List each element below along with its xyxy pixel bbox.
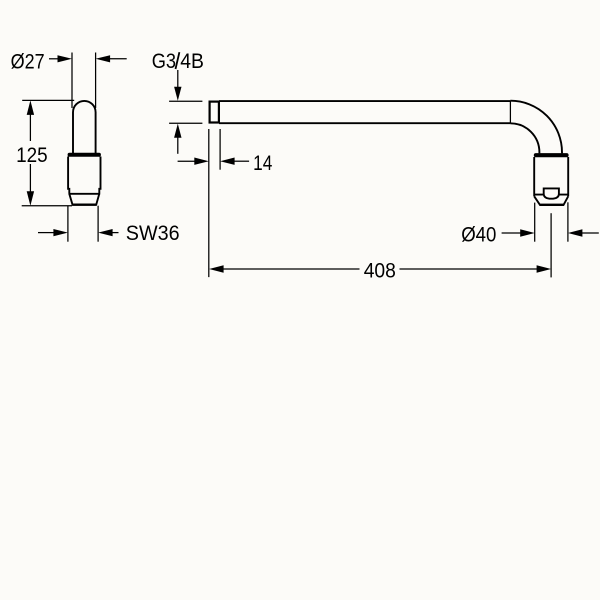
svg-text:14: 14 xyxy=(253,150,272,175)
svg-text:G3: G3 xyxy=(152,48,176,73)
svg-text:Ø27: Ø27 xyxy=(11,49,45,74)
svg-text:Ø40: Ø40 xyxy=(461,221,496,246)
svg-text:SW36: SW36 xyxy=(126,220,180,245)
svg-text:125: 125 xyxy=(16,142,48,167)
svg-text:4B: 4B xyxy=(180,48,204,73)
svg-text:408: 408 xyxy=(364,257,396,282)
